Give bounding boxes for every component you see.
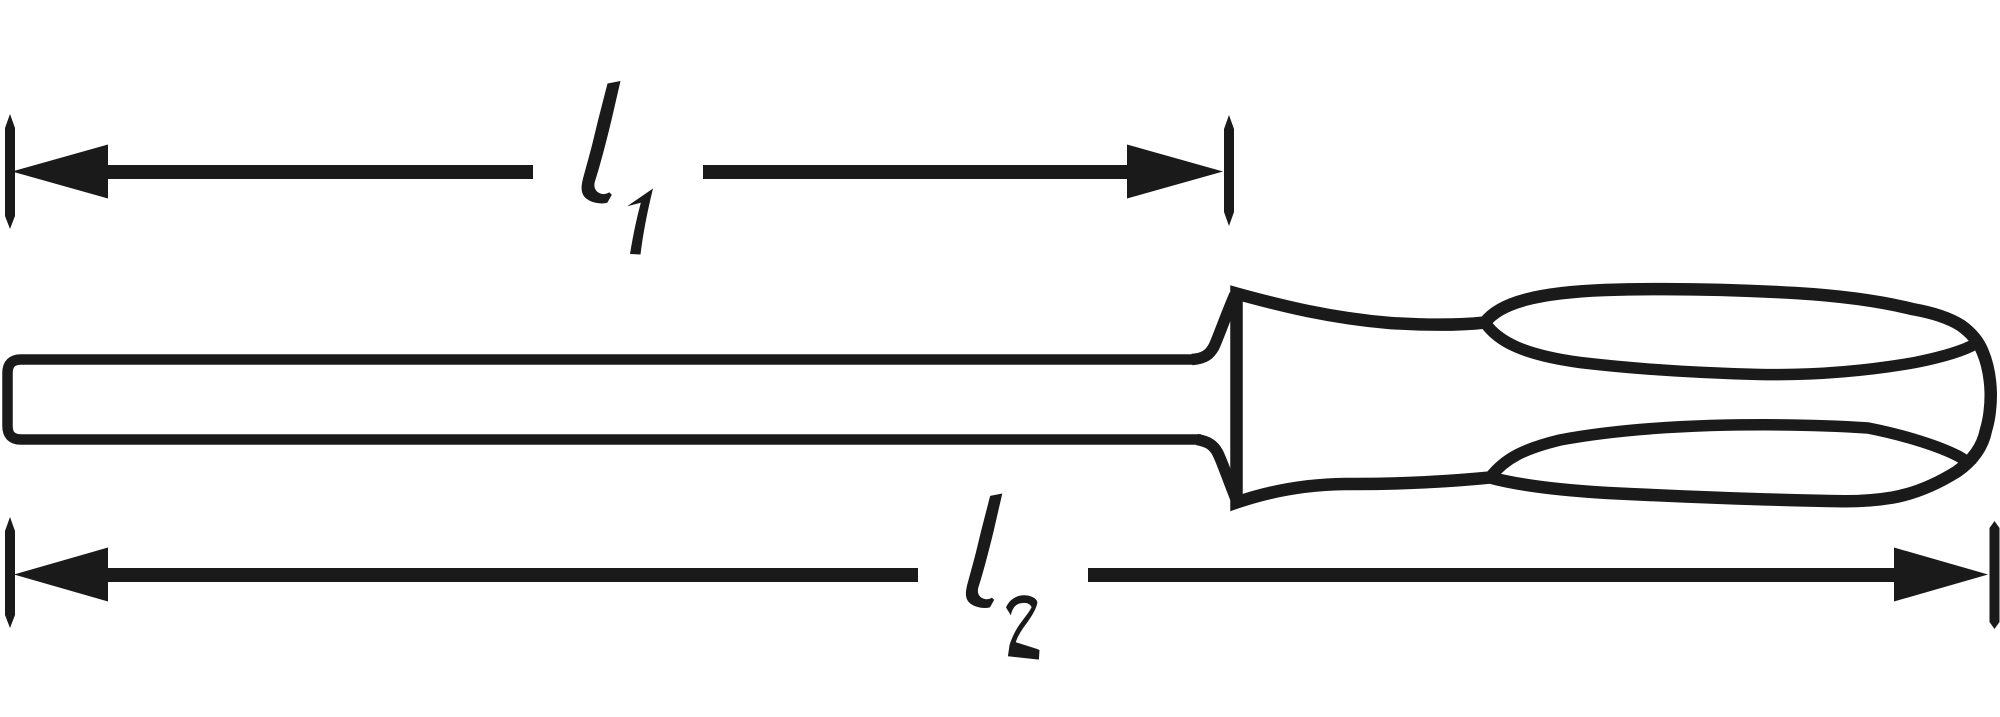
label l1 letter ell xyxy=(582,81,621,203)
dimension l1 line left segment xyxy=(100,165,533,179)
dimension l1 right tick xyxy=(1224,115,1234,226)
dimension l2 left arrowhead xyxy=(14,548,108,602)
dimension l1 left tick xyxy=(5,114,15,229)
dimension l2 line left segment xyxy=(100,568,918,582)
bottom lens groove (top edge) xyxy=(1490,425,1972,478)
blade outline (shaft tube) xyxy=(8,360,1202,440)
label l2 letter ell xyxy=(966,494,1002,608)
label l2 subscript 2 xyxy=(1006,595,1040,659)
collar bottom curve xyxy=(1197,440,1236,500)
label l1 subscript 1 xyxy=(627,189,653,255)
dimension l2 right arrowhead xyxy=(1894,548,1988,602)
dimension l2 line right segment xyxy=(1088,568,1896,582)
collar top curve xyxy=(1192,295,1235,360)
dimension l2 right tick xyxy=(1990,521,2000,629)
handle silhouette xyxy=(1237,289,1991,502)
top lens groove (bottom edge) xyxy=(1485,323,1976,375)
dimension l1 right arrowhead xyxy=(1127,145,1223,199)
dimension l1 line right segment xyxy=(703,165,1130,179)
dimension l1 left arrowhead xyxy=(12,145,108,199)
dimension l2 left tick xyxy=(5,517,15,628)
